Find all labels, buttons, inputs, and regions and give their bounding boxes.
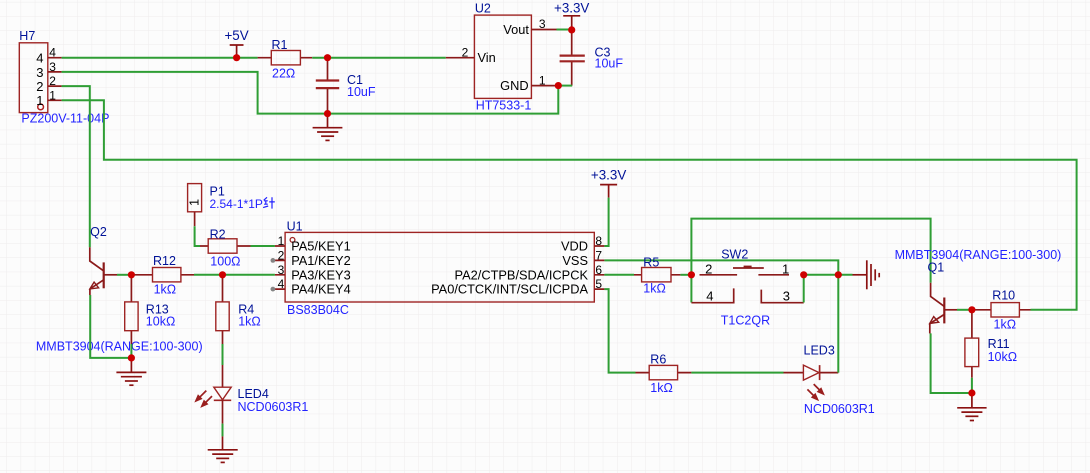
svg-text:MMBT3904(RANGE:100-300): MMBT3904(RANGE:100-300) <box>895 248 1062 262</box>
svg-text:VDD: VDD <box>561 239 588 254</box>
svg-text:PA2/CTPB/SDA/ICPCK: PA2/CTPB/SDA/ICPCK <box>455 267 589 282</box>
junction Vout <box>568 26 575 33</box>
svg-text:1kΩ: 1kΩ <box>238 315 261 329</box>
resistor R6 <box>636 353 692 396</box>
junction VSS/LED3 <box>835 271 842 278</box>
wire LED4 to ground <box>222 424 224 437</box>
wire LED3 up to VSS junction <box>837 275 839 373</box>
junction R1/C1 <box>324 54 331 61</box>
svg-text:Q2: Q2 <box>90 225 107 239</box>
capacitor C3 <box>560 30 624 86</box>
wire P1 to R2 <box>195 226 200 246</box>
svg-text:3: 3 <box>783 289 790 304</box>
svg-text:Vout: Vout <box>503 22 529 37</box>
wire R2 to U1 pin1 <box>251 245 275 247</box>
svg-text:PA0/CTCK/INT/SCL/ICPDA: PA0/CTCK/INT/SCL/ICPDA <box>431 282 588 297</box>
svg-text:PA4/KEY4: PA4/KEY4 <box>291 282 351 297</box>
svg-text:1kΩ: 1kΩ <box>994 317 1017 331</box>
svg-text:R1: R1 <box>272 38 288 52</box>
svg-text:R6: R6 <box>650 353 666 367</box>
wire U1 pin5 down to R6 <box>604 289 635 373</box>
resistor R2 <box>200 227 251 268</box>
wire SW2 left down to pin4 <box>690 275 692 303</box>
svg-text:4: 4 <box>278 277 285 291</box>
svg-text:LED4: LED4 <box>238 387 269 401</box>
svg-text:3: 3 <box>278 263 285 277</box>
svg-text:PA1/KEY2: PA1/KEY2 <box>291 253 351 268</box>
wire U2 Vout to +3.3V <box>557 29 572 31</box>
svg-text:HT7533-1: HT7533-1 <box>476 99 532 113</box>
resistor R10 <box>972 289 1031 332</box>
svg-text:1: 1 <box>278 234 285 248</box>
resistor R12 <box>131 254 194 296</box>
svg-text:GND: GND <box>500 78 528 93</box>
svg-text:10uF: 10uF <box>595 57 624 71</box>
svg-text:NCD0603R1: NCD0603R1 <box>804 402 875 416</box>
resistor R5 <box>634 255 680 295</box>
svg-text:22Ω: 22Ω <box>272 66 295 80</box>
resistor R4 <box>216 275 261 344</box>
regulator U2 <box>446 1 557 112</box>
junction +5V <box>233 54 240 61</box>
wire SW2 right to ground <box>804 274 853 276</box>
svg-text:1kΩ: 1kΩ <box>643 282 666 296</box>
ground sideways right <box>853 260 880 289</box>
svg-text:1: 1 <box>187 199 202 206</box>
power flag +5V <box>224 28 248 58</box>
svg-text:2: 2 <box>49 74 56 88</box>
svg-text:10uF: 10uF <box>347 85 376 99</box>
wire Q2 emitter to R13 bottom <box>90 295 131 358</box>
connector H7 <box>19 29 109 125</box>
wire H7.1 long loop to R10 <box>62 100 1077 309</box>
wire Q1 base to R10/R11 <box>957 309 972 311</box>
svg-text:1: 1 <box>49 88 56 102</box>
svg-text:2: 2 <box>462 45 469 59</box>
wire R4 to LED4 <box>222 344 224 365</box>
svg-text:R10: R10 <box>992 289 1015 303</box>
capacitor C1 <box>316 58 376 114</box>
svg-text:R2: R2 <box>210 227 226 241</box>
wire SW2 pin3 up to pin1 <box>803 275 805 303</box>
LED LED3 <box>784 344 875 417</box>
resistor R1 <box>258 38 313 80</box>
svg-text:10kΩ: 10kΩ <box>146 315 176 329</box>
wire VSS to SW2 right <box>604 260 838 274</box>
svg-text:3: 3 <box>539 17 546 31</box>
svg-text:3: 3 <box>49 60 56 74</box>
wire H7.4 to R1 <box>62 57 258 59</box>
wire R13 to ground <box>130 344 132 358</box>
ground under LED4 <box>208 436 238 462</box>
svg-text:4: 4 <box>36 51 43 66</box>
svg-text:1: 1 <box>539 73 546 87</box>
svg-text:PA3/KEY3: PA3/KEY3 <box>291 267 351 282</box>
wire H7.2 down to Q2 collector <box>62 86 90 247</box>
svg-text:+3.3V: +3.3V <box>554 0 589 15</box>
svg-text:1: 1 <box>782 262 789 277</box>
svg-text:MMBT3904(RANGE:100-300): MMBT3904(RANGE:100-300) <box>36 340 203 354</box>
svg-text:2: 2 <box>278 248 285 262</box>
wire R1 to U2 Vin <box>312 57 446 59</box>
wire R11 to ground <box>971 378 973 393</box>
svg-text:Vin: Vin <box>478 50 496 65</box>
junction U2 GND <box>555 82 562 89</box>
svg-text:10kΩ: 10kΩ <box>988 350 1018 364</box>
transistor Q2 <box>36 225 203 354</box>
svg-text:7: 7 <box>595 248 602 262</box>
junction Q1 base <box>968 306 975 313</box>
svg-text:2.54-1*1P: 2.54-1*1P <box>210 197 263 211</box>
wire pin6 to R5 <box>604 274 634 276</box>
MCU U1 <box>271 219 605 317</box>
switch SW2 <box>691 247 803 327</box>
wire Q2 base to R12 <box>117 274 131 276</box>
junction R12 right / R4 <box>219 271 226 278</box>
transistor Q1 <box>895 248 1062 333</box>
wire +3.3V to VDD <box>604 198 608 246</box>
svg-text:1kΩ: 1kΩ <box>650 381 673 395</box>
svg-text:R12: R12 <box>153 254 176 268</box>
ground under R13 <box>116 358 146 385</box>
wire H7.3 to U2 GND net <box>62 72 559 114</box>
wire Q1 emitter to R11 bottom <box>931 333 972 393</box>
junction SW2 right <box>800 271 807 278</box>
junction Q1 emitter / R11 <box>968 389 975 396</box>
svg-text:PA5/KEY1: PA5/KEY1 <box>291 239 351 254</box>
ground under C1 <box>313 114 343 141</box>
power flag +3.3V middle <box>591 168 626 198</box>
svg-text:SW2: SW2 <box>721 247 748 261</box>
header P1 <box>187 184 275 227</box>
LED LED4 <box>195 365 308 424</box>
junction R12 left <box>128 271 135 278</box>
svg-text:1: 1 <box>36 93 43 108</box>
svg-text:2: 2 <box>705 262 712 277</box>
svg-text:4: 4 <box>49 46 56 60</box>
svg-text:VSS: VSS <box>562 253 588 268</box>
wire SW2 left to top rail <box>691 219 930 283</box>
junction Q2 emitter / R13 <box>128 354 135 361</box>
svg-text:3: 3 <box>36 65 43 80</box>
svg-text:LED3: LED3 <box>804 344 835 358</box>
svg-text:100Ω: 100Ω <box>210 254 240 268</box>
svg-text:H7: H7 <box>19 29 35 43</box>
svg-text:5: 5 <box>595 277 602 291</box>
svg-text:U2: U2 <box>475 1 491 15</box>
svg-text:+3.3V: +3.3V <box>591 168 626 183</box>
junction SW2 left <box>688 271 695 278</box>
svg-text:R5: R5 <box>643 255 659 269</box>
svg-text:BS83B04C: BS83B04C <box>287 303 349 317</box>
svg-text:6: 6 <box>595 263 602 277</box>
svg-text:4: 4 <box>706 289 713 304</box>
svg-text:Q1: Q1 <box>928 261 945 275</box>
ground under R11 <box>957 393 986 421</box>
wire C3 bottom to GND pin <box>558 85 572 87</box>
hand-drawn CJK glyph zhen <box>263 197 275 208</box>
svg-text:PZ200V-11-04P: PZ200V-11-04P <box>21 111 109 125</box>
power flag +3.3V top <box>554 0 589 30</box>
svg-text:8: 8 <box>595 234 602 248</box>
junction C1 bottom <box>324 110 331 117</box>
svg-text:1kΩ: 1kΩ <box>154 283 177 297</box>
wire R5 to SW2 <box>680 274 691 276</box>
wire R6 to LED3 <box>691 372 783 374</box>
svg-text:T1C2QR: T1C2QR <box>721 314 770 328</box>
resistor R11 <box>965 310 1017 378</box>
svg-text:+5V: +5V <box>224 28 248 43</box>
svg-text:U1: U1 <box>287 219 303 233</box>
svg-text:NCD0603R1: NCD0603R1 <box>238 400 309 414</box>
wire R12 to U1 pin3 <box>194 274 275 276</box>
resistor R13 <box>125 275 176 344</box>
